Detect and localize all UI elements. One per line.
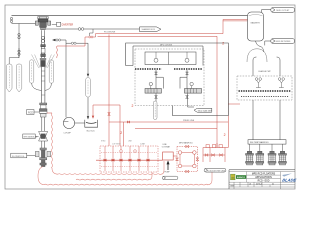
wire: choke column right: [180, 70, 194, 107]
wire: choke column left: [156, 70, 163, 101]
pump tie-in unit: [203, 143, 225, 162]
arrow to pump: [167, 163, 169, 170]
tensioner cables (V lines): [32, 55, 55, 69]
svg-text:RCD - ESD: RCD - ESD: [258, 181, 270, 183]
valve V5: [71, 42, 76, 44]
label DIVERTER: [57, 22, 61, 26]
tensioner capsule right: [49, 60, 53, 83]
flowspool unit: [35, 148, 50, 167]
svg-text:MPD RCD FLOATERS: MPD RCD FLOATERS: [252, 173, 276, 176]
svg-text:RIG PUMP MANIFOLD: RIG PUMP MANIFOLD: [250, 141, 269, 144]
svg-text:2: 2: [222, 41, 224, 45]
svg-text:APPLICATIONS: APPLICATIONS: [255, 176, 272, 179]
wire: MGS loop line: [126, 43, 229, 116]
svg-text:SHAKER BOX: SHAKER BOX: [142, 28, 156, 31]
gauge GR: [190, 82, 193, 85]
label RCD: [27, 110, 34, 115]
svg-text:2: 2: [224, 133, 226, 137]
valve RV130: [129, 159, 131, 162]
MPD annular BOP: [39, 131, 48, 141]
red dashed rows in skid: [101, 153, 157, 167]
wire: red header y105: [93, 105, 120, 146]
pump P1 (circle): [63, 117, 74, 128]
wire: spool RCD-annular: [42, 117, 45, 131]
charge pump skid dashed box: [237, 76, 292, 100]
svg-text:STBD: STBD: [101, 141, 106, 143]
valve M194-166: [193, 164, 197, 168]
svg-text:MUD OUTLET: MUD OUTLET: [276, 10, 290, 12]
gauge GL: [149, 82, 152, 85]
wire: spool annular-flowspool: [42, 141, 45, 148]
wire: red fill line: [109, 121, 228, 123]
valve RV139: [138, 159, 140, 162]
manifold bar lower: [241, 96, 289, 98]
valve V1 left connector: [10, 17, 12, 22]
wire: riser upper column: [42, 30, 45, 58]
svg-text:FLOWLINE: FLOWLINE: [104, 32, 116, 34]
hose W2: [76, 178, 149, 181]
gauges G1: [255, 78, 261, 88]
connector flag MUD OUTLET: [271, 7, 295, 12]
red main header: [96, 156, 177, 160]
wire: red feed to charge pumps: [228, 103, 240, 105]
hose W1: [58, 173, 161, 176]
valve M194-152: [193, 151, 197, 155]
gauge RG2: [134, 150, 137, 153]
wire: standpipe drop: [9, 24, 19, 65]
svg-text:OUT/WAY: OUT/WAY: [162, 146, 171, 149]
separator vessel MGS: [248, 12, 264, 41]
rig pump manifold box: [248, 140, 286, 144]
hose W3: [44, 183, 208, 186]
svg-text:CHARGE PMP: CHARGE PMP: [258, 70, 271, 73]
valve RV148: [147, 159, 149, 162]
svg-text:FLOWSPOOL: FLOWSPOOL: [12, 156, 26, 158]
svg-text:SWACO: SWACO: [237, 176, 246, 179]
title block table: [229, 172, 295, 189]
logo M-I SWACO: [231, 174, 235, 180]
manifold bar: [239, 90, 291, 92]
valve RV0: [89, 36, 93, 38]
gauge RG1: [120, 150, 123, 153]
choke bar right: [174, 68, 203, 70]
rig pump RP3: [268, 151, 276, 165]
wire: flowline to shaker: [46, 28, 140, 30]
wire: fill pump line with arrow: [54, 40, 66, 117]
label FLOWSPOOL: [11, 153, 27, 158]
hook pipe right: [277, 57, 280, 76]
line out red box: [163, 152, 174, 160]
rig pump RP1: [246, 151, 254, 165]
svg-text:2: 2: [132, 104, 134, 108]
svg-text:CUTTINGS: CUTTINGS: [112, 143, 121, 145]
svg-text:RCD: RCD: [28, 111, 33, 114]
wire: red line y128.5: [135, 128, 217, 130]
valve RV121: [120, 159, 122, 162]
choke block right: [185, 89, 202, 94]
svg-text:PUMP: PUMP: [164, 171, 170, 173]
hook pipe left: [253, 57, 256, 76]
tensioner capsule left: [29, 60, 33, 83]
svg-text:MPD MANIFOLD: MPD MANIFOLD: [179, 142, 193, 145]
connector flag KILL LINE (vertical capsule): [7, 64, 12, 92]
choke bar left: [135, 68, 162, 70]
water tank dome: [247, 49, 267, 62]
connector flag TO BOOST: [204, 168, 226, 172]
connector flag CHOKE LINE (vertical capsule): [16, 64, 21, 92]
valve RV105: [104, 159, 106, 162]
RCD unit: [39, 103, 47, 117]
svg-text:2: 2: [120, 131, 122, 135]
wire: title block top line: [229, 170, 295, 189]
wire: manifold to pumps stems: [250, 144, 283, 151]
svg-text:MUD GAS SEP: MUD GAS SEP: [198, 109, 213, 112]
red grid verticals: [105, 146, 148, 171]
svg-text:C-PUMP: C-PUMP: [63, 133, 71, 135]
hose: tensioner right: [45, 83, 52, 90]
loop seal: [256, 41, 264, 52]
wire: mud returns line: [265, 41, 271, 45]
choke manifold dashed enclosure: [135, 49, 204, 106]
wire: red drop to tank: [92, 105, 94, 116]
choke block left: [145, 89, 161, 94]
rig pump RP4: [279, 151, 287, 165]
valve V4: [56, 39, 61, 41]
hose: RCD return (red zigzag): [47, 112, 52, 114]
manifold inner box: [145, 52, 196, 65]
connector flag SHAKER BOX: [140, 27, 162, 32]
wire: red gas line lower: [92, 35, 217, 38]
connector flag TRIP TANK (vertical): [153, 101, 157, 120]
flange F1 below diverter: [41, 36, 46, 56]
border frame: [5, 5, 295, 189]
title text: [252, 173, 276, 183]
wire: red drop x123.5: [123, 122, 125, 146]
wire: red vertical B: [225, 46, 228, 148]
red dashed skid box: [100, 146, 158, 172]
wire: tank feed line: [66, 43, 88, 116]
wire: main flow line to separator: [12, 15, 249, 17]
telescopic joint TJ: [40, 58, 46, 60]
title small row text: [231, 182, 275, 187]
svg-text:2-WAY: 2-WAY: [140, 142, 146, 145]
instrument I1: [156, 52, 187, 58]
hose: flowspool to manifold: [38, 167, 44, 185]
valve V3 on flowline: [78, 28, 84, 31]
svg-text:MUD RETURNS: MUD RETURNS: [276, 41, 291, 43]
valve M180-152: [178, 151, 182, 155]
connector flag MUD GAS SEP: [194, 108, 212, 112]
wire: red gas line upper: [96, 20, 248, 37]
label MPD ANNULAR: [23, 134, 35, 139]
diverter D1 housing: [35, 17, 50, 30]
wire: black branch to red valve: [90, 29, 96, 37]
valve M180-166: [178, 164, 182, 168]
tiny labels above grid: [101, 141, 146, 146]
wire: charge pumps down: [253, 100, 280, 140]
svg-text:GAS/WTR: GAS/WTR: [250, 21, 260, 24]
wire: red vertical A: [216, 36, 218, 147]
connector flag CUTTINGS: [162, 176, 178, 179]
wire: vessel to outlet flag: [262, 10, 272, 12]
svg-text:Mud Tank: Mud Tank: [87, 131, 95, 133]
gauges G2: [278, 78, 284, 88]
hose: tensioner left: [32, 83, 42, 90]
wire: red riser takeoff: [57, 37, 89, 46]
rig pump RP2: [256, 151, 264, 165]
valve V2 flanges: [18, 33, 20, 55]
wire: pump to tank: [75, 122, 85, 124]
svg-text:To BOOST PMP LINE: To BOOST PMP LINE: [207, 170, 225, 172]
instrument I2: [185, 58, 189, 62]
svg-text:4273-4: 4273-4: [256, 183, 262, 185]
svg-text:DIVERTER: DIVERTER: [62, 25, 74, 27]
svg-text:BLADE: BLADE: [282, 178, 297, 183]
manifold outer box: [133, 46, 203, 66]
riser pipe: [42, 67, 45, 103]
connector flag gravity line (vertical capsule): [86, 78, 91, 98]
wire: red long drop x109: [108, 34, 110, 146]
mud tank: [85, 120, 98, 127]
MPD manifold box: [177, 147, 197, 172]
svg-text:MPD ANNULAR: MPD ANNULAR: [24, 136, 38, 139]
svg-text:PRESS LINE: PRESS LINE: [183, 120, 195, 122]
connector flag MUD RETURNS: [271, 39, 295, 44]
valve RV113: [112, 159, 114, 162]
svg-text:01: 01: [272, 183, 274, 185]
wire: lower diverter line: [12, 23, 37, 25]
